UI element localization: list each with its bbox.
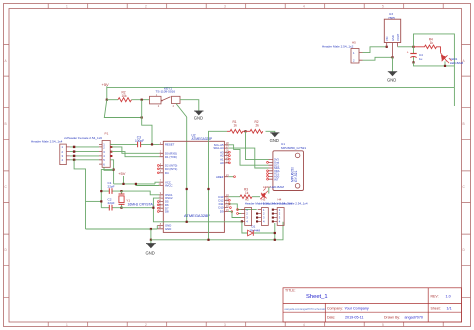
connector H5 header male 1x2 <box>322 40 363 63</box>
svg-text:16MHz CRYSTAL: 16MHz CRYSTAL <box>128 202 155 206</box>
resistor R3 1k <box>240 187 252 198</box>
node AVCC tap <box>135 183 137 185</box>
svg-text:1/1: 1/1 <box>447 307 452 311</box>
svg-text:xxHeader Female 2.54_1x6: xxHeader Female 2.54_1x6 <box>64 136 102 140</box>
svg-text:Company:: Company: <box>327 307 343 311</box>
svg-text:4: 4 <box>303 323 305 327</box>
IC U2 ATMEGA328P body <box>163 133 224 232</box>
wire crystal row2 to OSC2 <box>122 198 160 208</box>
connector Header Male 2.54_1x4 (left) <box>31 139 70 164</box>
wire loop top <box>414 34 455 88</box>
U2 left pin stubs <box>157 144 163 228</box>
wire P1.3 to TXD <box>112 152 160 157</box>
diode D1 1N4448 <box>242 221 275 235</box>
node OSC2 row <box>152 207 154 209</box>
wire C4 bottom to LED row <box>414 62 455 66</box>
U1 pin names <box>274 158 280 182</box>
node v1 on y222 wire <box>186 221 188 223</box>
svg-text:+5V: +5V <box>102 82 110 87</box>
svg-text:Header Male 2.54_1x4: Header Male 2.54_1x4 <box>31 139 63 143</box>
svg-text:GND: GND <box>391 35 395 41</box>
svg-text:INT: INT <box>274 177 279 181</box>
wire R2 right to GND <box>266 131 275 133</box>
resistor R4 1k <box>414 37 441 53</box>
resistor R2 10k (reset pullup) <box>118 90 131 101</box>
LED LED2 <box>252 185 284 199</box>
wire male header to P1 pins <box>70 147 99 160</box>
wire GND bus bottom <box>151 222 283 240</box>
wire VCC rail <box>114 183 155 185</box>
wire D9 to H2 pin3 <box>228 212 241 218</box>
svg-text:3: 3 <box>224 5 226 9</box>
wire GND rail left <box>86 228 158 230</box>
wire key junction down to reset node <box>142 100 152 145</box>
U2 right pin stubs <box>224 145 228 212</box>
svg-text:Sheet:: Sheet: <box>431 307 441 311</box>
svg-text:Header Male 2.54_1x4: Header Male 2.54_1x4 <box>277 202 308 206</box>
svg-text:D8: D8 <box>165 210 169 214</box>
svg-text:2019-05-11: 2019-05-11 <box>345 316 364 320</box>
resistor R2 2k <box>246 120 263 133</box>
power +5V symbol mid <box>118 171 126 184</box>
svg-text:TITLE:: TITLE: <box>285 289 296 293</box>
svg-text:easyeda.com/angad7070 schemati: easyeda.com/angad7070 schematic <box>285 307 327 311</box>
capacitor C3 100pF <box>110 135 159 147</box>
+5V symbol top left <box>102 82 110 100</box>
node C4 top <box>412 46 414 48</box>
connector P1 Header Female 2.54_1x6 <box>64 131 112 167</box>
node diode/bus <box>274 239 276 241</box>
node C4 bottom <box>412 61 414 63</box>
svg-text:1: 1 <box>66 5 68 9</box>
capacitor C1 22pF <box>101 181 121 194</box>
U2 right pin names <box>213 143 224 214</box>
svg-text:2k: 2k <box>256 124 260 128</box>
crystal Y1 16MHz <box>119 191 155 208</box>
node H2.4 junction <box>241 220 243 222</box>
svg-text:B: B <box>463 122 465 126</box>
wire v1 vertical key tap down to header <box>186 117 188 222</box>
node +5V stem on rail <box>122 183 124 185</box>
wire diagonal key pin4 tap <box>176 104 187 118</box>
node on v1 <box>186 188 188 190</box>
wire SCL from U2 to MPU <box>228 145 268 165</box>
wire +5V rail top <box>107 86 455 88</box>
wire D13 to R3 <box>228 196 240 198</box>
svg-text:RESET: RESET <box>165 143 175 147</box>
U1 pin stubs <box>269 160 273 180</box>
node diode/wire <box>274 232 276 234</box>
svg-text:GND: GND <box>270 138 279 143</box>
wire VCC/AVCC bracket <box>136 182 159 185</box>
svg-text:2: 2 <box>145 5 147 9</box>
svg-text:AREF: AREF <box>216 175 224 179</box>
pin unconnected dots U2 left D2 D3 D4 <box>157 165 159 174</box>
svg-text:GND: GND <box>387 78 396 83</box>
node on v2 <box>207 188 209 190</box>
ground GND (regulator) <box>387 57 397 82</box>
node reset junction <box>151 143 153 145</box>
svg-text:3: 3 <box>224 323 226 327</box>
node T junction <box>141 116 143 118</box>
U2 left pin names <box>165 143 177 231</box>
connector H2 header male 1x4 <box>237 198 276 226</box>
svg-text:GY-521: GY-521 <box>294 171 298 182</box>
node GND rail <box>150 228 152 230</box>
wire GND stem to bus <box>150 229 152 240</box>
svg-text:Header Male 2.54_1x2: Header Male 2.54_1x2 <box>322 44 354 48</box>
node C1 left <box>100 190 102 192</box>
U1 unconnected pin dots <box>267 162 269 181</box>
U2 right pin numbers <box>226 142 229 212</box>
svg-text:D9: D9 <box>220 210 224 214</box>
wire H5.1 to 7805 VIN <box>363 47 387 53</box>
node GND pin <box>391 56 393 58</box>
wire P1.6 hook <box>104 167 114 170</box>
ground GND (bottom center) <box>146 240 156 256</box>
node GND stem on bus <box>150 239 152 241</box>
capacitor C4 1u polarized <box>407 47 423 63</box>
svg-text:1: 1 <box>66 323 68 327</box>
svg-text:MPU6050_GY521: MPU6050_GY521 <box>281 146 306 150</box>
node C1 right / crystal top <box>120 190 122 192</box>
svg-text:ATMEGA328P: ATMEGA328P <box>184 213 210 218</box>
svg-text:GND: GND <box>146 250 155 255</box>
svg-text:B: B <box>5 122 7 126</box>
IC U3 7805 regulator <box>384 12 400 57</box>
wire SDA from U2 to MPU <box>228 148 268 168</box>
wire GND tap from male header <box>74 160 85 229</box>
svg-text:A0: A0 <box>220 161 224 165</box>
connector H3 header male 1x4 <box>256 198 292 226</box>
wire diagonal +5V to reset rail <box>104 100 141 118</box>
svg-text:AVCC: AVCC <box>165 184 173 188</box>
ground GND (key) <box>194 111 204 121</box>
svg-text:ATMEGA328P: ATMEGA328P <box>192 137 213 141</box>
svg-text:1k: 1k <box>430 41 434 45</box>
U2 left pin numbers <box>159 142 162 229</box>
wire R1R2 node to MPU 3V3 <box>246 131 269 159</box>
node P1.5 drop <box>113 169 115 171</box>
wire P1.2 to RXD <box>112 147 160 153</box>
svg-text:100pF: 100pF <box>135 139 144 143</box>
svg-text:Drawn By:: Drawn By: <box>384 316 400 320</box>
node dots on header wires <box>73 146 75 161</box>
pin unconnected dots U2 right A3 A2 A1 A0 AREF D12 D11 D10 D9 <box>229 151 236 212</box>
svg-text:2: 2 <box>145 323 147 327</box>
svg-text:Sheet_1: Sheet_1 <box>306 294 328 300</box>
switch KEY1 TS-1109-5016 <box>150 86 181 108</box>
svg-text:VOUT: VOUT <box>396 33 400 41</box>
svg-text:Date:: Date: <box>327 316 335 320</box>
wire D11 to H3 pin1 <box>228 204 256 210</box>
wire crystal left stub <box>86 200 102 202</box>
svg-text:LED-BAM: LED-BAM <box>450 61 464 65</box>
svg-text:+: + <box>407 51 409 55</box>
node junction +5V <box>106 99 108 101</box>
TITLE BLOCK <box>283 288 462 322</box>
svg-text:22pF: 22pF <box>108 201 115 205</box>
wire hanging +5V stub right <box>453 87 455 106</box>
svg-text:TS-1109-5016: TS-1109-5016 <box>156 90 176 94</box>
svg-text:10k: 10k <box>122 94 128 98</box>
svg-text:1k: 1k <box>234 124 238 128</box>
svg-text:P1: P1 <box>105 131 109 135</box>
svg-text:Your Company: Your Company <box>345 307 369 311</box>
svg-text:4: 4 <box>303 5 305 9</box>
svg-text:D1 (TXD): D1 (TXD) <box>165 155 177 159</box>
LED LED1 <box>441 53 464 66</box>
wire R2 to key <box>132 99 150 101</box>
svg-text:GND: GND <box>194 116 203 121</box>
node C2 right / crystal bottom <box>120 207 122 209</box>
svg-text:LED-BAM: LED-BAM <box>271 185 285 189</box>
node LED bottom <box>444 65 446 67</box>
node R1/R2 mid <box>244 130 246 132</box>
wire diode right up and down to bus <box>274 223 276 240</box>
node VIN <box>386 46 388 48</box>
svg-text:VIN: VIN <box>385 37 389 41</box>
wire key to GND <box>180 100 199 111</box>
wire VOUT to C4 node <box>398 46 414 48</box>
svg-text:22pF: 22pF <box>108 185 115 189</box>
wire H5.2 to GND node <box>363 57 393 60</box>
svg-text:GND: GND <box>165 227 171 231</box>
wire OSC2 net extension down <box>153 208 241 222</box>
wire P1.1 to C3/reset <box>110 143 112 145</box>
capacitor C2 22pF <box>101 198 121 211</box>
svg-text:REV:: REV: <box>431 295 439 299</box>
wire crystal row1 to OSC1 <box>122 191 160 195</box>
IC U1 MPU6050 GY521 module <box>273 142 306 191</box>
wire U2 GND pins bracket <box>156 226 158 230</box>
ground GND (pullups) <box>270 133 280 143</box>
resistor R1 1k <box>227 120 246 133</box>
node v2 on bus <box>207 239 209 241</box>
svg-text:1k: 1k <box>245 191 249 195</box>
wire v2 R1 left to GND bus <box>209 131 228 240</box>
pin unconnected dots U2 left D5 D6 D7 D8 <box>157 201 159 213</box>
node junction R2/key <box>141 99 143 101</box>
svg-text:D4: D4 <box>165 171 169 175</box>
node crystal col <box>100 200 102 202</box>
svg-text:5: 5 <box>382 323 384 327</box>
svg-text:1.0: 1.0 <box>446 295 451 299</box>
wire branch to crystal node column <box>101 170 113 208</box>
svg-text:5: 5 <box>382 5 384 9</box>
wire AREF stub <box>228 176 233 178</box>
connector H4 header male 1x4 <box>272 198 308 226</box>
svg-text:angad7070: angad7070 <box>405 316 423 320</box>
svg-text:+5V: +5V <box>118 171 126 176</box>
wire P1.5 down to VCC rail <box>110 160 113 184</box>
svg-text:1u: 1u <box>419 57 423 61</box>
wire junction to R2 <box>107 99 118 101</box>
